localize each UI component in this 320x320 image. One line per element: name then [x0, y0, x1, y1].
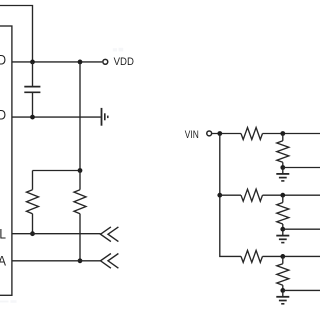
wire SCL pin	[12, 233, 101, 235]
wire row 2 bottom node to right edge	[283, 228, 320, 230]
wire row 3 to right edge	[263, 255, 320, 257]
junction: VIN rail tap	[217, 131, 222, 136]
wire row 2 from rail to R4	[220, 194, 241, 196]
svg-text:VIN: VIN	[185, 129, 199, 141]
wire from left edge over box top down to VDD pin wire	[0, 6, 33, 62]
ground row 2	[276, 229, 289, 242]
ground row 3	[276, 290, 289, 303]
junction: R6 bottom node	[280, 165, 285, 170]
wire VDD pin to VDD terminal	[12, 61, 102, 63]
wire row 2 to right edge	[263, 194, 320, 196]
terminal VDD (open circle)	[103, 59, 108, 64]
ground (rotated, pointing right)	[102, 108, 108, 126]
wire VIN terminal to R3	[212, 133, 242, 135]
resistor R3 (series, row 1)	[241, 128, 263, 140]
junction: VDD rail tap	[78, 60, 83, 65]
terminal VIN (open circle)	[207, 131, 212, 136]
junction: top wire / VDD pin wire	[30, 60, 35, 65]
resistor R8 (shunt, row 3)	[277, 256, 289, 290]
junction: R1 bottom on SCL wire	[30, 231, 35, 236]
resistor R4 (series, row 2)	[241, 189, 263, 201]
wire row 1 bottom node to right edge	[283, 167, 320, 169]
faint ghost mark bottom-left (artifact in source)	[0, 301, 9, 303]
svg-text:VDD: VDD	[114, 56, 134, 68]
resistor R7 (shunt, row 2)	[277, 195, 289, 229]
junction: R8 bottom node	[280, 288, 285, 293]
junction: R2 bottom on SDA wire	[78, 258, 83, 263]
resistor R5 (series, row 3)	[241, 250, 263, 262]
resistor R1 (pull-up on SCL)	[27, 171, 39, 234]
wire VIN rail down with corner to row 3	[220, 134, 241, 257]
svg-text:GND: GND	[0, 108, 6, 123]
wire SDA pin	[12, 260, 101, 262]
off-page connector SCL (double chevron)	[101, 227, 119, 242]
junction: row 2 / shunt resistor	[280, 193, 285, 198]
svg-text:SDA: SDA	[0, 254, 6, 269]
wire row 3 bottom node to right edge	[283, 289, 320, 291]
wire GND pin to ground symbol	[12, 116, 101, 118]
wire VDD rail down	[79, 62, 81, 171]
ground row 1	[276, 168, 289, 181]
junction: rail / resistor top wire	[78, 168, 83, 173]
svg-text:VDD: VDD	[0, 53, 6, 68]
junction: capacitor bottom on GND wire	[30, 115, 35, 120]
junction: R7 bottom node	[280, 227, 285, 232]
resistor R2 (pull-up on SDA)	[74, 171, 86, 261]
junction: row 3 / shunt resistor	[280, 254, 285, 259]
junction: row 1 / shunt resistor	[280, 131, 285, 136]
resistor R6 (shunt, row 1)	[277, 134, 289, 168]
IC U1 (left edge cut off)	[0, 26, 12, 295]
wire connecting pull-up resistor tops	[33, 170, 81, 172]
svg-text:SCL: SCL	[0, 227, 6, 242]
faint ghost mark above VDD (artifact in source)	[113, 48, 117, 51]
junction: rail / row 2	[217, 193, 222, 198]
off-page connector SDA (double chevron)	[101, 254, 119, 269]
capacitor C1	[24, 62, 40, 117]
wire row 1 to right edge	[263, 133, 320, 135]
